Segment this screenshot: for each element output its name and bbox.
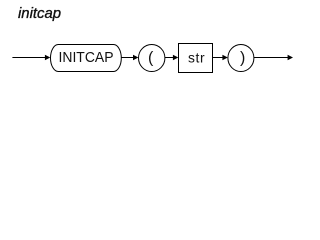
arrowhead end bbox=[288, 55, 293, 60]
wire str to ) bbox=[213, 57, 224, 59]
nonterminal str (rect) bbox=[179, 44, 213, 73]
arrowhead into str bbox=[173, 55, 178, 60]
terminal ( bbox=[139, 45, 165, 72]
terminal ) bbox=[228, 45, 254, 72]
wire end bbox=[254, 57, 289, 59]
arrowhead into ( bbox=[133, 55, 138, 60]
svg-text:(: ( bbox=[148, 50, 154, 67]
arrowhead into INITCAP bbox=[45, 55, 50, 60]
svg-text:): ) bbox=[240, 50, 245, 67]
wire start bbox=[12, 57, 45, 59]
svg-text:initcap: initcap bbox=[18, 6, 61, 22]
svg-text:INITCAP: INITCAP bbox=[59, 50, 114, 66]
wire INITCAP to ( bbox=[121, 57, 134, 59]
arrowhead into ) bbox=[222, 55, 227, 60]
wire ( to str bbox=[165, 57, 174, 59]
terminal INITCAP (rounded rect) bbox=[51, 45, 122, 72]
svg-text:str: str bbox=[188, 51, 205, 66]
